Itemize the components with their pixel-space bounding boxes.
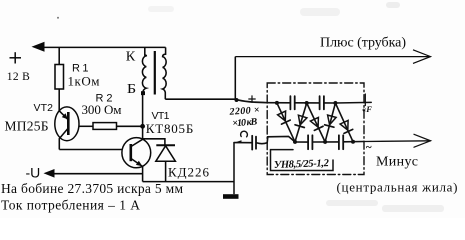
wire: VT2 base to R2 — [79, 125, 93, 127]
svg-text:Плюс (трубка): Плюс (трубка) — [320, 35, 406, 50]
wire: R1 bottom lead to VT2 emitter — [58, 89, 60, 111]
node dots bottom rail — [293, 140, 297, 144]
svg-text:(центральная жила): (центральная жила) — [337, 179, 458, 194]
node junction dot — [140, 124, 145, 129]
wire: -U line — [52, 173, 143, 175]
top rail segments — [267, 102, 335, 104]
resistor R1 body — [55, 65, 64, 90]
bottom rail segments — [267, 136, 364, 142]
svg-text:~: ~ — [366, 142, 373, 154]
svg-text:КД226: КД226 — [168, 165, 210, 180]
VT1 emitter with arrow — [131, 159, 143, 167]
svg-text:VT1: VT1 — [152, 110, 170, 122]
capacitor C1 top — [289, 96, 291, 109]
wire: secondary bottom out — [165, 98, 235, 100]
wire: node down to VT1 collector — [142, 126, 144, 139]
transformer secondary winding (right) — [163, 47, 167, 99]
VT2 base bar — [67, 112, 70, 135]
diode D5 (multiplier) — [340, 120, 348, 130]
svg-text:×10 кВ: ×10 кВ — [232, 117, 258, 130]
svg-text:КТ805Б: КТ805Б — [146, 121, 194, 136]
ground symbol — [223, 194, 239, 199]
svg-text:К: К — [126, 50, 136, 65]
winding start dot (square) — [141, 91, 145, 95]
wire: R1 top lead — [58, 47, 60, 64]
hand loop mark — [241, 131, 248, 137]
wire: emitter rail to ground — [143, 181, 234, 183]
transistor VT2 (PNP) circle — [55, 107, 79, 141]
capacitor C3 bottom — [307, 135, 309, 149]
svg-text:На бобине 27.3705 искра 5 мм: На бобине 27.3705 искра 5 мм — [1, 181, 183, 196]
node dots top rail — [275, 101, 279, 105]
corner wedge — [234, 140, 241, 143]
plus output open arrowhead — [413, 50, 431, 64]
diode D2 (multiplier) — [298, 115, 307, 125]
wire: minus output line — [364, 140, 431, 143]
VT1 collector diagonal — [131, 139, 143, 146]
VT2 collector — [59, 128, 68, 150]
minus output open arrowhead — [414, 134, 431, 147]
wire: plus output riser — [234, 57, 236, 100]
svg-text:VT2: VT2 — [34, 102, 54, 114]
wire: collector branch to diode — [143, 139, 165, 146]
input capacitor C0 — [251, 136, 253, 150]
svg-text:-U: -U — [26, 164, 41, 180]
wire: input to multiplier top rail — [235, 99, 267, 103]
zigzag diode ladder wires — [277, 103, 353, 142]
transistor VT1 (NPN) circle — [122, 138, 151, 168]
svg-text:1кОм: 1кОм — [68, 74, 100, 89]
capacitor C2 top — [319, 96, 321, 109]
diode D4 (multiplier) — [328, 115, 337, 125]
wire: VT1 emitter down — [142, 167, 144, 182]
svg-text:12 В: 12 В — [7, 71, 30, 83]
wire: VT2 collector to VT1 base — [59, 149, 122, 151]
hand-drawn multiplier section — [228, 83, 430, 175]
diode VD1 KD226 triangle — [156, 146, 176, 162]
wire: capacitor to box — [257, 142, 267, 145]
wire: top rail extension to F terminal — [335, 101, 371, 104]
transformer primary winding (left) — [142, 47, 146, 92]
svg-text:300 Ом: 300 Ом — [82, 102, 122, 117]
diode D1 (multiplier) — [278, 111, 286, 121]
multiplier module dash-dot box — [267, 83, 364, 175]
VT1 base bar — [130, 144, 133, 161]
faint scan smudges — [300, 8, 340, 16]
svg-text:МП25Б: МП25Б — [5, 118, 49, 133]
VT2 emitter with arrow — [59, 110, 68, 119]
wire: winding B down to node — [142, 95, 144, 126]
wire: top supply rail — [42, 46, 166, 48]
wire: R2 to node — [117, 125, 143, 127]
plus sign of supply — [10, 52, 22, 63]
transformer core — [154, 51, 156, 95]
svg-text:«F: «F — [362, 104, 372, 114]
junction blob at secondary output — [235, 98, 239, 102]
module label box — [271, 150, 334, 171]
svg-text:Б: Б — [127, 82, 136, 97]
polarity plus mark — [249, 96, 255, 102]
svg-text:Минус: Минус — [376, 154, 418, 169]
resistor R2 body — [93, 123, 117, 130]
-U terminal arrow — [44, 169, 55, 178]
supply input arrow (+12V terminal) — [32, 42, 45, 52]
svg-text:УН8,5/25-1,2: УН8,5/25-1,2 — [274, 158, 330, 171]
svg-text:Ток потребления – 1 А: Ток потребления – 1 А — [1, 197, 140, 212]
diode D3 (multiplier) — [310, 117, 318, 127]
wire: plus output line — [235, 56, 430, 58]
terminal tick — [364, 94, 366, 106]
wire: ground drop — [233, 143, 235, 195]
wire: diode anode down — [165, 161, 167, 181]
speck artifact — [57, 17, 59, 19]
diode VD1 KD226 cathode bar — [156, 144, 175, 146]
capacitor C4 bottom — [338, 135, 340, 149]
wire: corner to input capacitor — [234, 142, 251, 144]
